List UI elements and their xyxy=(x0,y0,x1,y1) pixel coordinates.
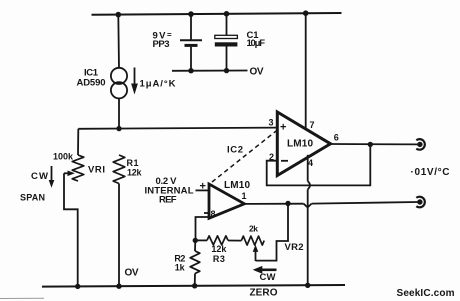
wire IC1 top lead xyxy=(117,15,120,68)
wire IC1 bottom lead xyxy=(118,98,120,128)
wire R3 to VR2 xyxy=(228,240,241,242)
scan artifact line bottom left xyxy=(0,297,44,299)
wire battery bottom lead xyxy=(190,47,192,71)
node junction top rail / battery xyxy=(188,11,194,17)
svg-text:IC2: IC2 xyxy=(227,145,243,156)
node junction rail / R1 xyxy=(116,284,121,289)
node junction R2 / R3 / pin8 xyxy=(193,238,198,243)
label - main xyxy=(281,160,288,162)
potentiometer VR1 100k body xyxy=(72,155,84,181)
op-amp IC2b LM10 reference xyxy=(209,184,244,218)
svg-text:2k: 2k xyxy=(249,224,258,234)
svg-text:8: 8 xyxy=(211,209,216,219)
label - reference xyxy=(204,212,209,214)
svg-text:PP3: PP3 xyxy=(153,39,170,50)
VR2 wiper arrow up xyxy=(253,245,259,261)
svg-text:6: 6 xyxy=(334,133,339,143)
svg-text:ZERO: ZERO xyxy=(250,288,278,299)
resistor R1 12k body xyxy=(113,155,125,184)
svg-text:OV: OV xyxy=(250,67,264,78)
svg-text:SeekIC.com: SeekIC.com xyxy=(397,288,455,299)
svg-text:CW: CW xyxy=(260,272,276,283)
svg-text:OV: OV xyxy=(125,268,139,279)
node junction 0V stub / battery xyxy=(188,68,193,73)
svg-text:12k: 12k xyxy=(211,244,227,254)
node junction rail / R2 xyxy=(192,283,197,288)
wire pin 2 feedback from output xyxy=(267,144,371,185)
wire VR2 wiper step to output node xyxy=(256,203,289,260)
wire R2 top lead xyxy=(194,240,196,251)
node junction top rail / IC1 branch xyxy=(116,12,122,18)
wire reference output pin1 to terminal with V hop xyxy=(244,203,303,205)
svg-text:1: 1 xyxy=(242,191,247,201)
svg-text:SPAN: SPAN xyxy=(20,193,45,203)
terminal output socket bottom xyxy=(416,197,425,208)
wire 0V stub under battery xyxy=(172,70,248,72)
wire VR1 top lead xyxy=(77,129,79,155)
current source IC1 AD590 xyxy=(111,68,127,99)
svg-text:LM10: LM10 xyxy=(224,180,250,191)
wire C1 bottom lead xyxy=(226,47,228,71)
node junction 0V stub / C1 xyxy=(224,68,229,73)
arrow CW down xyxy=(49,166,55,188)
capacitor C1 10uF electrolytic xyxy=(215,35,238,46)
svg-text:R3: R3 xyxy=(213,254,225,264)
svg-text:3: 3 xyxy=(269,118,274,128)
wire bottom 0V rail xyxy=(42,285,345,287)
wire R3 left lead xyxy=(195,239,207,241)
wire pin 7 supply lead xyxy=(305,13,307,129)
node junction top rail / pin7 branch xyxy=(303,10,309,16)
svg-text:4: 4 xyxy=(308,158,313,168)
svg-text:+: + xyxy=(280,121,286,133)
op-amp IC2a LM10 main xyxy=(277,112,330,176)
svg-text:VR2: VR2 xyxy=(285,242,304,253)
wire noninverting stub 0.2V ref xyxy=(196,189,210,191)
node junction rail / pin 4 xyxy=(305,283,310,288)
node junction rail / VR1 step xyxy=(75,284,80,289)
wire VR1 wiper step to 0V rail xyxy=(64,173,78,286)
svg-text:R1: R1 xyxy=(127,158,139,168)
svg-text:LM10: LM10 xyxy=(287,139,313,150)
wire R1 bottom lead to 0V rail xyxy=(118,184,120,287)
node junction output pin1 / VR2 step xyxy=(285,201,290,206)
svg-text:VRI: VRI xyxy=(88,165,105,176)
VR1 wiper arrow xyxy=(64,171,75,177)
node junction top rail / C1 xyxy=(224,11,230,17)
wire pin 8 to R2/R3 junction xyxy=(196,217,210,240)
wire output pin 6 to terminal xyxy=(331,143,419,145)
wire C1 top lead xyxy=(226,14,228,35)
terminal output socket top xyxy=(416,139,425,150)
resistor R2 1k body xyxy=(190,251,200,274)
resistor R3 12k body xyxy=(207,236,228,245)
wire noninverting input net (AD590 to pin 3) xyxy=(78,128,277,129)
svg-text:7: 7 xyxy=(310,120,315,130)
node junction input net / R1 column xyxy=(116,126,121,131)
wire top supply rail xyxy=(92,13,342,15)
svg-text:REF: REF xyxy=(159,195,177,206)
svg-text:12k: 12k xyxy=(127,168,142,178)
svg-text:·01V/°C: ·01V/°C xyxy=(411,167,450,178)
svg-text:1k: 1k xyxy=(175,262,186,272)
potentiometer VR2 2k body xyxy=(241,236,264,245)
node junction output / feedback xyxy=(368,142,373,147)
wire battery top lead xyxy=(190,14,192,39)
wire pin 4 to 0V rail with hop over feedback xyxy=(307,155,309,181)
dashed line IC2 package xyxy=(212,131,277,182)
svg-text:10μF: 10μF xyxy=(247,38,266,49)
svg-text:CW: CW xyxy=(31,171,48,182)
svg-text:AD590: AD590 xyxy=(77,78,106,89)
svg-text:1μA/°K: 1μA/°K xyxy=(140,79,176,90)
arrow current direction down xyxy=(131,68,138,95)
battery 9V PP3 xyxy=(180,40,202,47)
arrow CW left xyxy=(253,266,277,274)
wire R2 bottom lead to 0V rail xyxy=(194,274,196,286)
svg-text:100k: 100k xyxy=(53,152,74,162)
